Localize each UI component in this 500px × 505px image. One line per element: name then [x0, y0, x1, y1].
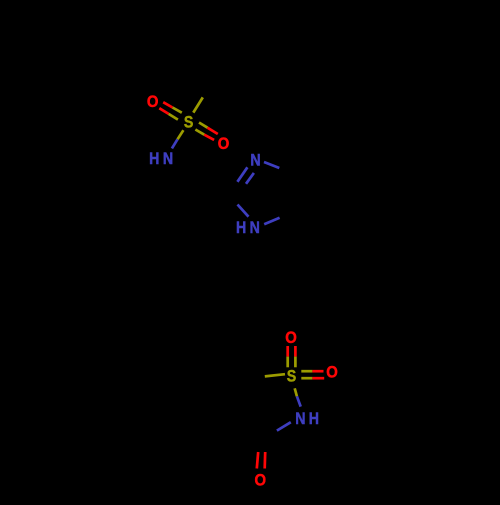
wire imidazole N1-C2 bond (nitrogen half) [238, 205, 249, 217]
svg-text:O: O [147, 93, 159, 111]
wire S1-CH3 bond (sulfur half) [193, 97, 203, 112]
svg-text:N: N [250, 151, 260, 169]
svg-text:N: N [250, 219, 260, 237]
wire O1=S1 double bond lower line (red half) [159, 108, 168, 114]
wire N2-C3 bond (nitrogen half) [277, 422, 291, 430]
wire S2=O3 vertical double bond left line (red half) [286, 346, 289, 357]
svg-text:O: O [255, 472, 267, 490]
svg-text:O: O [218, 135, 230, 153]
wire C3=O5 double bond right line (red half) [263, 452, 266, 469]
wire imidazole C2=N3 inner line (nitrogen half) [246, 173, 254, 184]
svg-text:O: O [326, 364, 338, 382]
wire S2=O4 horizontal double bond upper line (red half) [312, 370, 323, 373]
wire S1=O2 double bond lower line (sulfur half) [195, 130, 204, 135]
wire O1=S1 double bond lower line (sulfur half) [169, 114, 178, 120]
wire S2=O3 vertical double bond right line (sulfur half) [294, 357, 297, 368]
wire O1=S1 double bond upper line (sulfur half) [173, 108, 182, 113]
svg-text:N: N [163, 150, 173, 168]
svg-text:N: N [295, 410, 305, 428]
svg-text:H: H [236, 219, 246, 237]
wire S2-N2 bond (sulfur half) [295, 388, 297, 396]
svg-text:H: H [149, 150, 159, 168]
svg-text:H: H [309, 410, 319, 428]
wire C3=O5 double bond left line (red half) [257, 452, 258, 469]
wire S2=O4 horizontal double bond upper line (sulfur half) [301, 370, 312, 373]
svg-text:O: O [285, 329, 297, 347]
wire S2=O4 horizontal double bond lower line (red half) [312, 377, 324, 380]
wire S2=O3 vertical double bond left line (sulfur half) [286, 357, 289, 368]
wire S1=O2 double bond lower line (red half) [204, 135, 214, 140]
wire imidazole N3-C4 bond (nitrogen half) [264, 162, 279, 168]
wire S1=O2 double bond upper line (red half) [208, 128, 218, 134]
wire S2=O3 vertical double bond right line (red half) [294, 346, 297, 357]
wire S2-N2 bond (nitrogen half) [297, 396, 301, 406]
wire O1=S1 double bond upper line (red half) [163, 102, 172, 107]
svg-text:S: S [184, 114, 193, 132]
svg-text:S: S [287, 367, 296, 385]
wire imidazole N1-C5 bond (nitrogen half) [264, 218, 279, 225]
wire S2=O4 horizontal double bond lower line (sulfur half) [301, 377, 312, 380]
wire S1-N bond (sulfur half) [178, 130, 184, 139]
wire S1=O2 double bond upper line (sulfur half) [199, 123, 208, 128]
wire S1-N bond (nitrogen half) [172, 139, 178, 148]
wire imidazole C2=N3 main line (nitrogen half) [237, 167, 247, 182]
wire S2-C5 bond (sulfur half) [265, 374, 285, 376]
